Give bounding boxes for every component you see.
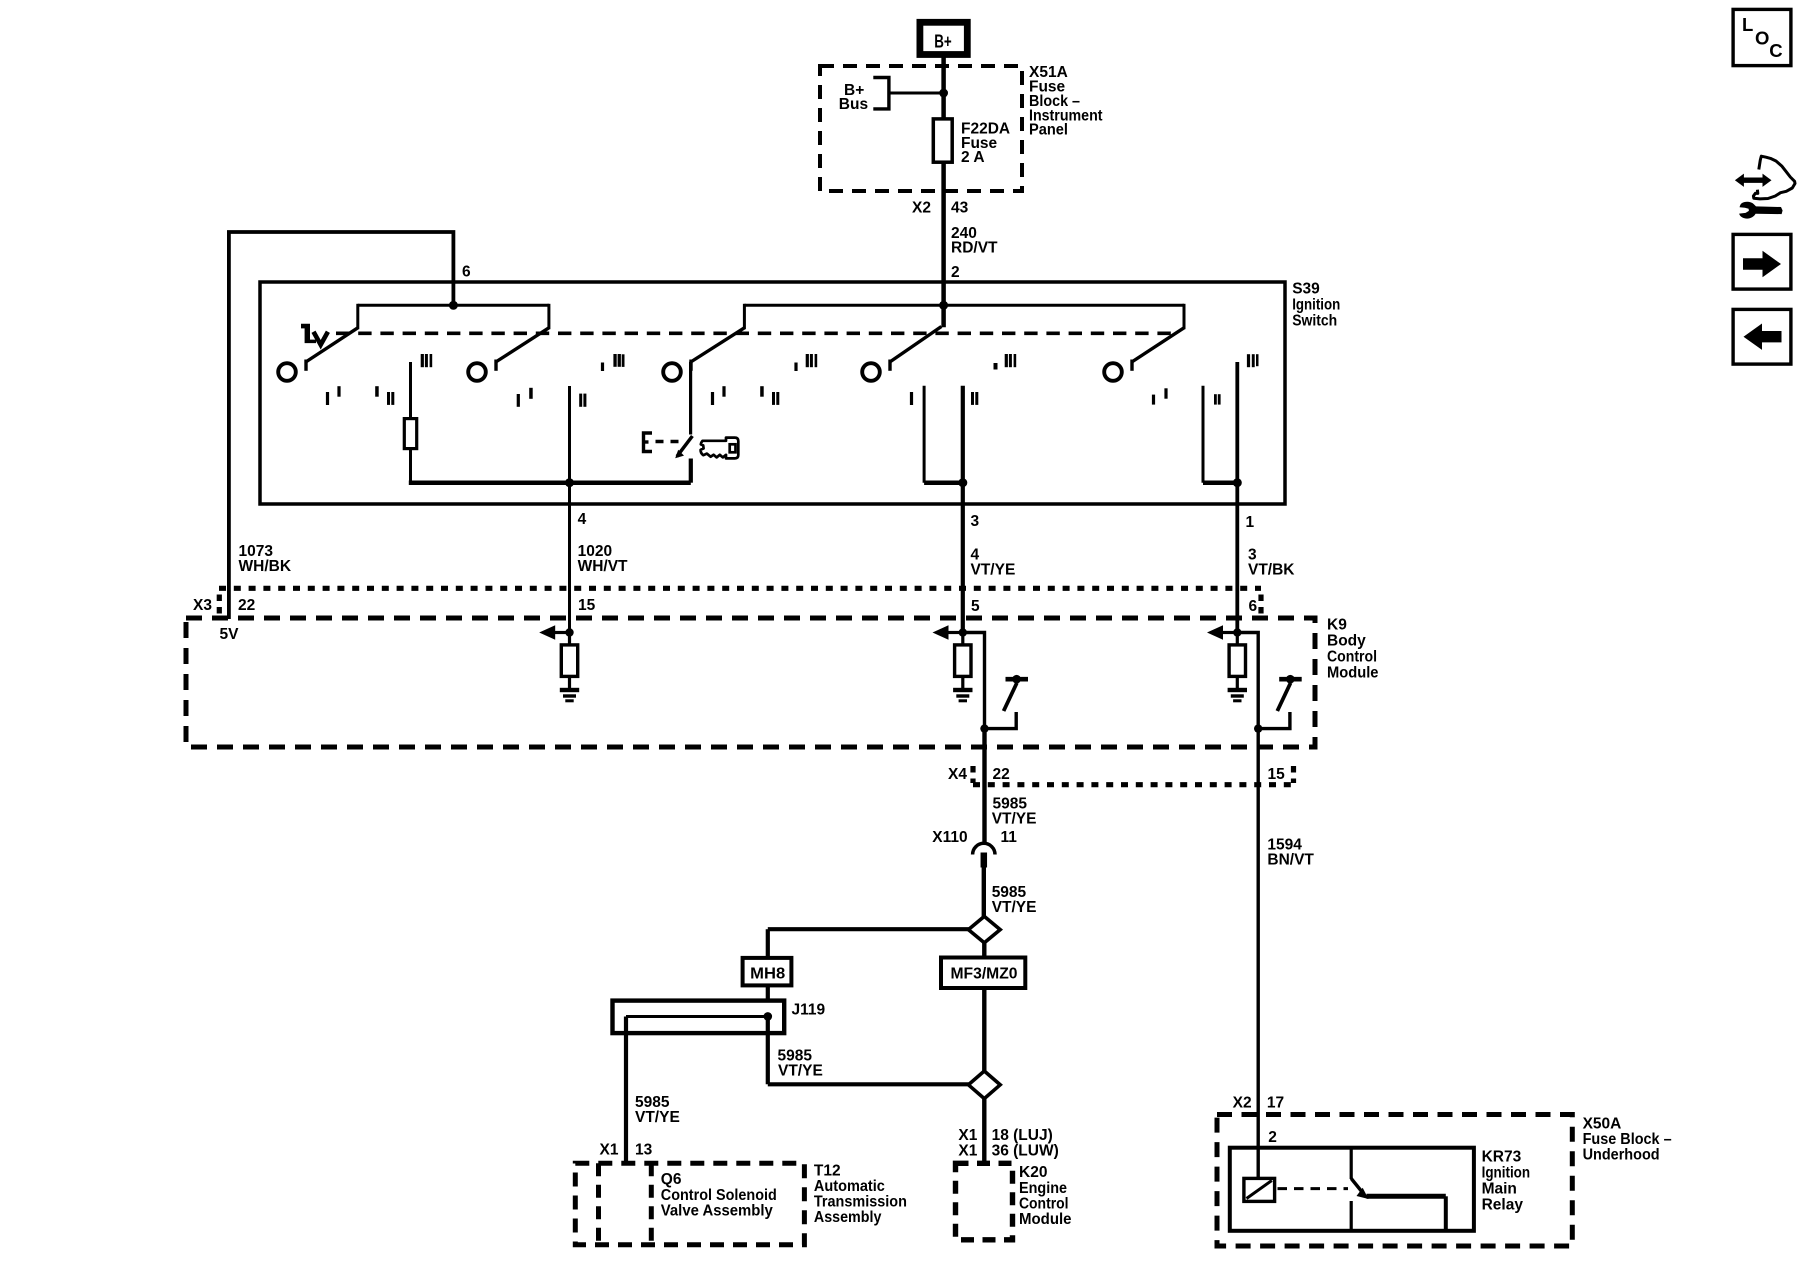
wire - contact to output pin 1, circuit 3 VT/BK [1235,362,1239,633]
svg-text:S39: S39 [1292,281,1320,298]
switch assembly S39 Ignition Switch box [260,282,1285,504]
key switch contact arm [677,436,692,456]
svg-text:Control: Control [1019,1196,1069,1213]
ground symbol in BCM [1228,688,1247,692]
key switch dashed link [656,440,681,443]
power symbol B+ terminal [920,22,967,54]
solid state switch in BCM [1006,677,1029,682]
switch gang 2 pivot circle [468,363,486,381]
relay actuation dashed line [1278,1187,1349,1190]
svg-text:X3: X3 [193,597,212,614]
svg-text:X1: X1 [958,1143,977,1160]
svg-text:Assembly: Assembly [814,1209,882,1226]
svg-text:3: 3 [971,513,980,530]
svg-text:13: 13 [635,1142,653,1159]
gang3 position III marks [794,363,797,372]
svg-text:Valve Assembly: Valve Assembly [661,1203,773,1220]
B+ Bus bracket symbol [873,78,889,109]
switch gang 2 movable contact arm [494,360,497,371]
svg-text:Underhood: Underhood [1583,1146,1660,1163]
wire - branch to driver switch [1237,633,1258,729]
contact line gang5 position II [1202,386,1205,483]
wire - BCM driver output to X4 pin 15, circuit 1594 [1256,729,1259,1179]
signal arrow into BCM logic [1222,631,1238,634]
switch gang 1 movable contact arm [304,360,307,371]
svg-text:36 (LUW): 36 (LUW) [992,1143,1059,1160]
svg-text:MF3/MZ0: MF3/MZ0 [951,966,1018,983]
ground symbol in BCM [953,688,972,692]
junction dot in J119 [764,1012,773,1021]
icon LOC box [1733,9,1791,65]
svg-text:K9: K9 [1327,617,1347,634]
gang1 position II marks [375,386,379,397]
option box MF3/MZ0 [941,958,1025,989]
svg-text:11: 11 [1001,829,1018,846]
junction dot at driver output [1254,724,1262,732]
gang2 position II marks [579,394,582,407]
wire riser gang1 [356,304,359,329]
icon forward arrow box [1733,234,1791,289]
svg-text:18 (LUJ): 18 (LUJ) [992,1127,1053,1144]
relay coil [1244,1178,1275,1201]
wire - feed bus to gangs 1-2 [358,304,549,307]
svg-text:Body: Body [1327,633,1366,650]
svg-text:X4: X4 [948,766,967,783]
wire riser gang2 [547,304,550,329]
solid state switch in BCM [1279,677,1302,682]
wire - ignition switch pin 6 loop to BCM X3 pin 22, circuit 1073 [229,232,454,619]
svg-text:Control: Control [1327,649,1377,666]
mechanical coupling dashed line [336,331,1174,335]
svg-text:K20: K20 [1019,1164,1047,1181]
svg-text:Automatic: Automatic [814,1178,885,1195]
junction dot at driver output [980,724,988,732]
svg-text:1: 1 [1246,514,1255,531]
svg-text:WH/VT: WH/VT [578,558,628,575]
svg-text:C: C [1769,40,1782,61]
module K9 Body Control Module dashed box [186,618,1315,747]
wire - contact to output pin 4, circuit 1020 [568,386,571,633]
module K20 Engine Control Module dashed box [956,1163,1013,1240]
wire - splice to ECM K20 [982,1098,986,1163]
ground symbol at pin 15 [560,688,579,692]
svg-text:BN/VT: BN/VT [1267,852,1314,869]
svg-text:2 A: 2 A [961,149,985,166]
wire - battery feed B+ down through fuse F22DA to ignition switch pin 2, circuit 240 RD/VT [941,52,946,327]
connector X4 dotted line [973,782,1294,787]
svg-text:VT/YE: VT/YE [778,1063,823,1080]
junction dot - bus to pin 3 [958,478,967,487]
svg-text:Bus: Bus [839,96,868,113]
svg-text:X1: X1 [600,1142,619,1159]
switch gang 4 movable contact arm [888,360,891,371]
svg-text:Q6: Q6 [661,1171,682,1188]
svg-text:5V: 5V [220,626,240,643]
assembly T12 Automatic Transmission dashed box [575,1163,804,1245]
pull-up resistor in BCM [961,636,964,646]
connector X3 dotted line [219,586,1261,591]
key switch fixed bracket [644,433,653,452]
svg-text:X2: X2 [912,200,931,217]
svg-text:Main: Main [1482,1181,1517,1198]
junction dot - bus to pin 1 [1233,478,1242,487]
splice diamond lower [968,1071,1000,1099]
svg-text:Control Solenoid: Control Solenoid [661,1187,777,1204]
switch gang 4 pivot circle [862,363,880,381]
gang5 position III marks [1247,354,1250,367]
contact line gang1 position III with resistor [409,362,412,420]
svg-text:Engine: Engine [1019,1180,1067,1197]
relay fixed contact bar [1367,1194,1446,1199]
svg-text:15: 15 [578,597,596,614]
svg-text:X1: X1 [958,1127,977,1144]
switch gang 5 movable contact arm [1130,360,1133,371]
svg-text:6: 6 [462,264,471,281]
junction dot - main feed to right bus [939,301,948,310]
key symbol [701,438,739,459]
fuse block X50A dashed box - Underhood [1217,1115,1572,1247]
junction dot at BCM pin 15 input [565,628,573,636]
svg-text:17: 17 [1267,1095,1284,1112]
component Q6 Control Solenoid Valve dashed box [596,1163,601,1245]
svg-text:X110: X110 [932,829,967,846]
svg-text:Relay: Relay [1482,1197,1524,1214]
svg-text:VT/YE: VT/YE [992,899,1037,916]
wire - BCM driver output to X4 pin 22 [982,729,986,844]
wire riser gang3 [743,304,746,329]
svg-text:43: 43 [951,200,969,217]
gang3 position II marks [760,386,764,397]
svg-text:B+: B+ [934,31,952,51]
svg-text:MH8: MH8 [750,966,785,983]
junction dot - pin 6 wire to left feed bus [449,301,458,310]
wire - J119 down to ECM branch [766,1017,770,1085]
icon hand with arrow and wrench [1753,156,1795,199]
wire - right bus segment B [1203,480,1237,485]
svg-text:KR73: KR73 [1482,1149,1522,1166]
wire - feed bus to gangs 3-5 [744,304,1184,307]
svg-text:VT/YE: VT/YE [635,1109,680,1126]
svg-text:6: 6 [1249,598,1258,615]
svg-text:RD/VT: RD/VT [951,240,998,257]
svg-text:2: 2 [1268,1129,1277,1146]
switch gang 3 movable contact arm [689,360,692,371]
splice diamond upper [968,916,1000,942]
relay KR73 Ignition Main Relay box [1230,1148,1474,1231]
lock position symbol [301,324,316,343]
svg-text:VT/BK: VT/BK [1248,562,1295,579]
wire - key contact line [689,362,692,435]
relay lower contact [1350,1201,1353,1229]
junction - B+ Bus tap dot [939,89,948,98]
svg-text:X2: X2 [1233,1095,1252,1112]
wire riser gang5 [1183,304,1186,329]
signal arrow into BCM logic [947,631,963,634]
gang4 position I marks [910,392,913,405]
svg-text:22: 22 [993,766,1010,783]
gang4 position III marks [994,363,998,370]
gang2 position III marks [601,363,604,372]
contact line gang4 position I [923,386,926,483]
gang1 position I marks [326,392,329,405]
wire - J119 internal bus [626,1015,768,1018]
gang5 position II marks [1214,394,1217,404]
wire - right bus segment A [924,480,963,485]
fuse F22DA 2 A [933,119,952,162]
svg-text:WH/BK: WH/BK [239,558,292,575]
svg-text:5: 5 [971,598,980,615]
svg-text:Module: Module [1019,1211,1072,1228]
svg-text:22: 22 [238,597,255,614]
svg-text:Panel: Panel [1029,122,1068,139]
icon back arrow box [1733,309,1791,364]
svg-text:2: 2 [951,264,960,281]
svg-text:O: O [1755,27,1769,48]
switch gang 1 pivot circle [278,363,296,381]
svg-text:Module: Module [1327,665,1379,682]
wire - MH8 to splice pack J119 [766,985,770,1016]
svg-text:Transmission: Transmission [814,1194,907,1211]
wire - splice to MH8 branch [768,927,969,931]
gang4 position II marks [971,392,974,405]
wire - left output bus inside switch [409,480,691,485]
junction dot - output bus to pin 4 [565,478,574,487]
svg-text:15: 15 [1268,766,1286,783]
junction dot at BCM input [959,628,967,636]
svg-text:L: L [1742,14,1753,35]
svg-text:J119: J119 [792,1002,826,1019]
splice pack J119 box [613,1001,785,1034]
svg-text:VT/YE: VT/YE [992,811,1037,828]
svg-text:Switch: Switch [1292,313,1337,330]
relay switch arm [1351,1179,1362,1193]
wire - splice to MF3/MZ0 [982,942,986,958]
gang3 position I marks [711,392,714,405]
wire - branch to driver switch [963,633,985,729]
pull-up resistor in BCM [1236,636,1239,646]
switch gang 5 pivot circle [1104,363,1122,381]
svg-text:Ignition: Ignition [1482,1165,1531,1182]
junction dot at BCM input [1233,628,1241,636]
wire - key contact lower stub [689,459,693,483]
wire - B+ Bus to main feed [889,92,941,95]
wire - J119 to Q6, circuit 5985 VT/YE [624,1017,628,1164]
wire - contact to output pin 3, circuit 4 VT/YE [961,386,965,633]
wire - X110 to splice, circuit 5985 VT/YE [982,867,986,917]
switch gang 3 pivot circle [663,363,681,381]
svg-text:4: 4 [578,511,587,528]
signal arrow into BCM at pin 15 [554,631,570,634]
resistor inside ignition switch [404,419,416,449]
svg-text:T12: T12 [814,1163,841,1180]
option box MH8 [743,958,792,986]
gang5 position I marks [1152,395,1155,405]
svg-text:VT/YE: VT/YE [971,562,1016,579]
svg-text:Ignition: Ignition [1292,297,1340,314]
relay switch common [1350,1148,1353,1179]
fuse block X51A dashed box - Instrument Panel [820,66,1022,191]
gang2 position I marks [517,394,520,407]
gang1 position III marks [421,354,424,367]
pull-down resistor at pin 15 [568,636,571,646]
